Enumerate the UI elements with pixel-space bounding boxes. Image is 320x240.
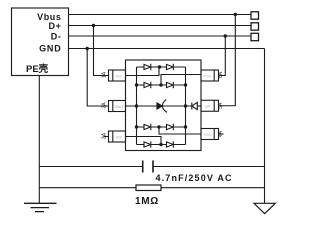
diode D2: [167, 64, 174, 70]
chassis ground triangle: [254, 203, 275, 213]
pad S2: [251, 23, 259, 30]
svg-text:6A: 6A: [218, 71, 224, 78]
node row2 mid: [159, 83, 162, 86]
earth ground PE: [24, 203, 57, 211]
svg-text:PE壳: PE壳: [26, 63, 49, 75]
wire GND drop to U1 pin: [87, 49, 108, 107]
node row3 mid: [157, 125, 160, 128]
pad S3: [251, 33, 259, 40]
capacitor C1: [143, 161, 153, 173]
svg-text:D-: D-: [51, 32, 62, 42]
wire Vbus drop to U1 pin: [219, 15, 236, 106]
wire D+ drop to U1 pin: [94, 26, 109, 76]
wire PE vertical: [38, 76, 40, 204]
wire cap net right: [154, 166, 265, 168]
svg-text:GND: GND: [39, 43, 61, 53]
row 1 wire: [137, 66, 186, 68]
wire pin6 to row2 mid: [161, 75, 201, 86]
op IC U1 body: [126, 60, 202, 151]
svg-text:GND: GND: [114, 104, 123, 109]
node mid-left bus: [135, 104, 138, 107]
svg-text:IO3: IO3: [204, 132, 211, 137]
svg-text:1MΩ: 1MΩ: [135, 196, 159, 207]
pin 6 right-top: [201, 70, 224, 81]
diode D5: [144, 124, 151, 130]
USB connector box J1: [12, 8, 69, 76]
right bus VBUS rail: [185, 67, 187, 145]
node row1 mid: [158, 65, 161, 68]
diode D6: [167, 124, 174, 130]
wire pin1 to row1 mid: [126, 67, 160, 76]
pin 3 left-bottom: [102, 131, 126, 142]
wire Vbus: [69, 14, 252, 16]
svg-text:2A: 2A: [102, 102, 108, 109]
wire mid line right: [163, 105, 192, 107]
diode D1: [144, 64, 151, 70]
diode D9: [192, 102, 201, 109]
row 2 wire: [137, 84, 186, 86]
wire mid line left: [126, 105, 157, 107]
svg-text:IO2: IO2: [115, 135, 122, 140]
pad S1: [251, 12, 259, 19]
pin 4 right-bottom: [201, 129, 224, 140]
junction dot GND: [86, 47, 89, 50]
wire cap net left: [39, 166, 142, 168]
svg-text:IO1: IO1: [115, 74, 122, 79]
svg-text:4A: 4A: [218, 130, 224, 137]
junction dot D+: [92, 24, 95, 27]
wire D+: [69, 25, 252, 27]
pin 1 left-top: [102, 70, 126, 81]
wire resistor net: [39, 187, 264, 189]
junction dot Vbus: [234, 13, 237, 16]
pin 5 right-middle: [201, 100, 224, 111]
diode D4: [167, 82, 174, 88]
resistor R1: [136, 185, 161, 191]
svg-text:4.7nF/250V AC: 4.7nF/250V AC: [156, 173, 233, 183]
node row4 mid: [159, 143, 162, 146]
node row2 left: [135, 83, 138, 86]
wire GND: [69, 48, 265, 50]
svg-text:D+: D+: [49, 21, 62, 31]
row 4 wire: [137, 144, 186, 146]
wire row3 mid to pin4: [159, 127, 201, 134]
junction dot D-: [224, 34, 227, 37]
diode D8: [167, 141, 174, 147]
diode D3: [144, 82, 151, 88]
node row2 right: [184, 83, 187, 86]
wire D- drop to U1 pin: [219, 36, 226, 76]
wire GND right vertical: [264, 49, 266, 204]
pin 2 left-middle: [102, 101, 126, 112]
svg-text:1A: 1A: [102, 71, 108, 78]
TVS Z1: [157, 100, 167, 113]
wire pin3 to row4 mid: [126, 137, 162, 145]
diode D7: [144, 141, 151, 147]
node mid-right bus: [184, 104, 187, 107]
svg-text:3A: 3A: [102, 132, 108, 139]
svg-text:5A: 5A: [218, 102, 224, 109]
row 3 wire: [137, 126, 186, 128]
node row3 left: [135, 125, 138, 128]
svg-text:IO4: IO4: [204, 74, 211, 79]
node row3 right: [184, 125, 187, 128]
svg-text:VP: VP: [205, 104, 211, 109]
left bus GND rail: [136, 67, 138, 145]
wire D-: [69, 35, 252, 37]
